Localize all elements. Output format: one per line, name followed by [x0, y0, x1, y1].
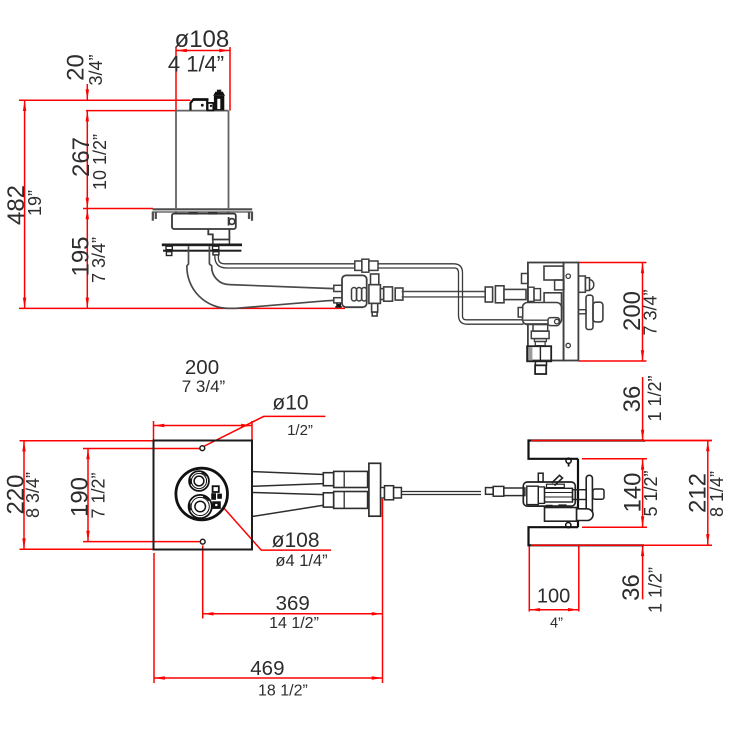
riser thin pipe from escutcheon [215, 255, 548, 325]
svg-text:10 1/2”: 10 1/2” [90, 134, 110, 190]
svg-text:369: 369 [276, 592, 310, 615]
after-flange fitting 3 [394, 488, 402, 499]
dimension 220 line [23, 441, 25, 550]
upper knob grip ticks [190, 473, 206, 485]
riser pipe end circle [555, 319, 560, 324]
nut center line [539, 346, 541, 361]
plan tapered pipe lower [253, 493, 323, 517]
dimension 212 line [707, 441, 709, 545]
arrow o108 right [219, 49, 230, 52]
arrow 140 bottom [641, 516, 644, 527]
mounting plate upper [162, 244, 242, 247]
inlet stub lower [334, 298, 342, 303]
upper knob hub [194, 476, 204, 486]
second compartment dot [210, 105, 212, 107]
mixer turret flange [213, 92, 225, 96]
arrow 200R bottom [641, 350, 644, 361]
riser pipe re-entry over body [523, 320, 549, 324]
svg-text:8 3/4”: 8 3/4” [23, 472, 43, 518]
bottom supply collar [535, 361, 546, 365]
red arrowheads top drawing [23, 49, 644, 361]
pipe taper top [230, 285, 334, 289]
manifold upper small square [555, 280, 564, 290]
arrow 36 bottom up [641, 545, 644, 556]
svg-text:1 1/2”: 1 1/2” [646, 567, 666, 613]
arrow 220 bottom [22, 538, 25, 549]
upper knob mid ring [191, 473, 206, 488]
arrow 190 top [86, 449, 89, 460]
arrow 482 bottom [23, 298, 26, 309]
arrow o108 left [176, 49, 187, 52]
dimension 267 line [86, 111, 88, 209]
red extension overlay on bracket top edge [531, 441, 712, 546]
counter flange bar [153, 209, 253, 221]
extension line bottom hole y=541.6 [83, 541, 200, 543]
arrow 200R top [641, 263, 644, 274]
escutcheon neck right [227, 211, 229, 213]
extension line plate top y=440.7 [20, 440, 154, 442]
manifold lower-left rounded body [523, 303, 562, 325]
extension line top of cap y=100.2 [19, 99, 191, 101]
arrow 100 left [529, 608, 540, 611]
dimension 200 right line [642, 263, 644, 362]
svg-text:ø10: ø10 [272, 392, 308, 415]
bolt left nut [166, 252, 171, 256]
aerator cap housing [191, 99, 208, 110]
arrow 369 right [372, 612, 383, 615]
bracket screw top stem [568, 463, 570, 466]
dimension 36 bottom line [642, 545, 644, 599]
spout column body [176, 111, 229, 209]
bolt right shaft [213, 246, 219, 250]
escutcheon step [208, 229, 229, 240]
manifold lower-left bump [518, 308, 523, 318]
mixer turret body [214, 96, 224, 111]
arrow 220 top [22, 441, 25, 452]
riser pipe end fitting [548, 318, 560, 326]
pipe taper bottom [236, 300, 334, 308]
outlet spout cone [578, 276, 593, 292]
arrow 190 bottom [86, 531, 89, 542]
extension line bracket inner bottom y=527.2 [582, 526, 647, 528]
drain nub dot [337, 304, 340, 307]
mounting plate square [154, 441, 253, 550]
riser pipe fittings [355, 259, 378, 272]
svg-text:7 1/2”: 7 1/2” [89, 472, 109, 518]
lower knob mid ring [191, 497, 209, 515]
arrow 482 top [23, 100, 26, 111]
plan valve body outline [523, 482, 575, 506]
diverter trim upper [213, 486, 219, 492]
bracket bottom bar [529, 527, 645, 545]
svg-text:7 3/4”: 7 3/4” [641, 289, 661, 335]
bottom supply nut large [527, 346, 551, 361]
plate hole top [200, 446, 205, 451]
svg-text:36: 36 [619, 386, 646, 413]
arrow 267 top [86, 111, 89, 122]
turret body slot [217, 99, 220, 109]
manifold inlet stripes [528, 287, 541, 301]
dimension 36 top line [642, 377, 644, 441]
extension line counter y=208.5 [83, 208, 153, 210]
arrow 212 bottom [706, 534, 709, 545]
svg-text:5 1/2”: 5 1/2” [641, 470, 661, 516]
svg-text:469: 469 [250, 657, 284, 680]
svg-text:4”: 4” [550, 616, 563, 632]
supply pipe fittings [485, 286, 526, 303]
bracket wall face [577, 459, 579, 527]
flange bar plan [369, 463, 381, 516]
extension line o108 left [175, 47, 177, 111]
outlet cascade 3 [534, 339, 546, 342]
pipe union fittings lower [323, 492, 367, 509]
extension line 100 right [578, 545, 580, 611]
dimension 195 line [86, 209, 88, 309]
svg-text:200: 200 [185, 356, 219, 379]
svg-text:ø4 1/4”: ø4 1/4” [275, 552, 327, 570]
cap screw dot [201, 104, 204, 107]
dimension 482 line [24, 100, 26, 308]
aerator second compartment [208, 103, 214, 111]
arrow 267 bottom [86, 198, 89, 209]
plan tapered pipe upper [253, 472, 323, 517]
svg-text:7 3/4”: 7 3/4” [89, 237, 109, 283]
plan valve inlet fitting large [493, 486, 504, 496]
manifold interior mid port [544, 293, 561, 309]
plan valve inner mid band [538, 487, 544, 504]
plan valve lower dome [577, 509, 594, 521]
long supply pipe plan [401, 492, 481, 495]
inlet stub upper [334, 285, 342, 291]
arrow 140 top [641, 459, 644, 470]
extension line 100 left [528, 545, 530, 611]
arrow 200 plan left [154, 424, 165, 427]
plan valve lever [552, 475, 563, 485]
plan valve lower body [545, 508, 577, 522]
plan valve inner detail left [527, 486, 539, 504]
bolt left shaft [166, 246, 172, 250]
plan valve cartridge lines [545, 493, 573, 498]
upper knob outer [189, 471, 209, 491]
dimension 100 line [529, 609, 579, 611]
bracket top bar [529, 441, 645, 459]
bracket screw top [566, 458, 571, 463]
svg-text:36: 36 [618, 574, 645, 601]
svg-text:14 1/2”: 14 1/2” [269, 615, 319, 632]
escutcheon neck left [175, 211, 177, 213]
extension line bottom hole vertical [202, 546, 204, 619]
baseline bottom reference line [19, 307, 345, 309]
dimension 200 plan line [154, 425, 253, 427]
arrow 369 left [203, 612, 214, 615]
handle stem [578, 310, 586, 314]
nut left shade [528, 347, 532, 360]
plan knob handle end [593, 489, 604, 499]
svg-text:1/2”: 1/2” [287, 422, 313, 439]
extension line top hole y=448.5 [83, 448, 200, 450]
valve block body [342, 275, 367, 307]
pipe union fittings upper [323, 471, 367, 487]
after-flange fitting 2 [385, 486, 394, 500]
handle bar [586, 295, 593, 329]
plan valve inlet fitting small [486, 488, 494, 495]
extension line bracket bottom y=545.3 [529, 544, 713, 546]
svg-text:4 1/4”: 4 1/4” [168, 52, 224, 77]
mixer turret stem [217, 90, 221, 92]
step connectors to plate [213, 240, 230, 245]
red arrowheads plan drawing [22, 424, 709, 680]
svg-text:1 1/2”: 1 1/2” [645, 375, 665, 421]
dimension 20 line [86, 84, 88, 100]
arrow 212 top [706, 441, 709, 452]
drain nub [335, 303, 342, 307]
wall plate screw top [566, 274, 570, 278]
flange screw slots [189, 212, 218, 214]
elbow inner [209, 246, 229, 284]
arrow 195 bottom [86, 298, 89, 309]
extension line plate bottom y=549.2 [20, 548, 154, 550]
extension line wall plate bottom [579, 360, 647, 362]
valve gland stripes [352, 288, 367, 302]
arrow 195 top [86, 209, 89, 220]
diverter trim lower [212, 501, 221, 509]
arrow 36 top down [641, 430, 644, 441]
mounting plate lower [163, 250, 241, 252]
elbow outer [187, 246, 236, 308]
arrow 100 right [568, 608, 579, 611]
lower knob outer [189, 495, 212, 518]
bottom supply end cap [535, 365, 546, 374]
extension line cylinder top y=110.6 [86, 110, 177, 112]
svg-text:8 1/4”: 8 1/4” [707, 471, 727, 517]
arrow 200 plan right [241, 424, 252, 427]
plate hole bottom [200, 539, 205, 544]
leader o108 plan [224, 508, 331, 550]
extension line plate right top [251, 421, 253, 441]
plan valve inlet pipe [504, 488, 525, 496]
plan valve top tab [538, 473, 543, 482]
svg-text:19”: 19” [25, 190, 45, 216]
dimension 190 line [87, 449, 89, 542]
escutcheon body [172, 214, 236, 244]
extension line wall plate top [579, 262, 647, 264]
supply pipe to wall valve [402, 292, 486, 297]
spout valve block [334, 275, 367, 307]
manifold interior upper port [544, 266, 564, 280]
plan valve small feet [547, 505, 567, 508]
outlet cascade 4 [535, 342, 545, 346]
svg-text:18 1/2”: 18 1/2” [258, 683, 308, 700]
extension line o108 right [229, 47, 231, 111]
spout elbow and horizontal pipe [187, 246, 334, 308]
svg-text:ø108: ø108 [175, 26, 230, 53]
svg-text:100: 100 [537, 586, 570, 608]
handle knob [593, 302, 603, 322]
red extension overlay on bracket bottom edge [531, 544, 712, 546]
dimension 469 line [154, 677, 383, 679]
extension line bracket inner top y=458.8 [582, 458, 647, 460]
extension line flange right vertical [382, 499, 384, 683]
bolt right nut [213, 252, 219, 255]
wall mount plate [564, 263, 579, 361]
diverter trim mid right [217, 494, 222, 499]
arrow 20 down [86, 89, 89, 100]
dimension 108 top line [176, 50, 230, 52]
extension line plate left bottom [153, 553, 155, 683]
after-flange fitting 1 [381, 488, 385, 499]
cap top thick edge [193, 98, 209, 101]
wall plate screw bottom [566, 343, 570, 347]
outlet cascade 1 [533, 324, 548, 331]
dimension 369 line [203, 613, 383, 615]
bracket screw bottom [566, 523, 571, 528]
svg-text:7 3/4”: 7 3/4” [182, 377, 226, 396]
plan valve top band [547, 484, 565, 487]
lower knob grip ticks [190, 497, 209, 511]
plan knob stem across wall [573, 490, 587, 500]
arrow 469 left [154, 676, 165, 679]
arrow 469 right [372, 676, 383, 679]
manifold upper-left port [522, 274, 529, 284]
outlet cascade 2 [531, 331, 549, 339]
diverter white slit [215, 504, 217, 506]
cross fitting at valve outlet [369, 274, 403, 316]
valve manifold block [528, 263, 564, 361]
main trim circle o108 [176, 468, 228, 520]
extension line plate left top [153, 421, 155, 441]
extension line bracket top y=440.5 [529, 440, 713, 442]
diverter trim mid left [211, 493, 216, 500]
plan valve cartridge [545, 488, 573, 502]
escutcheon side circle [229, 219, 235, 225]
lower knob hub [195, 501, 206, 512]
bracket screw bottom stem [567, 520, 569, 523]
svg-text:3/4”: 3/4” [86, 54, 106, 85]
plan knob bar [586, 475, 592, 517]
svg-text:ø108: ø108 [272, 529, 320, 552]
leader o10 [204, 416, 326, 446]
dimension 140 line [642, 459, 644, 527]
